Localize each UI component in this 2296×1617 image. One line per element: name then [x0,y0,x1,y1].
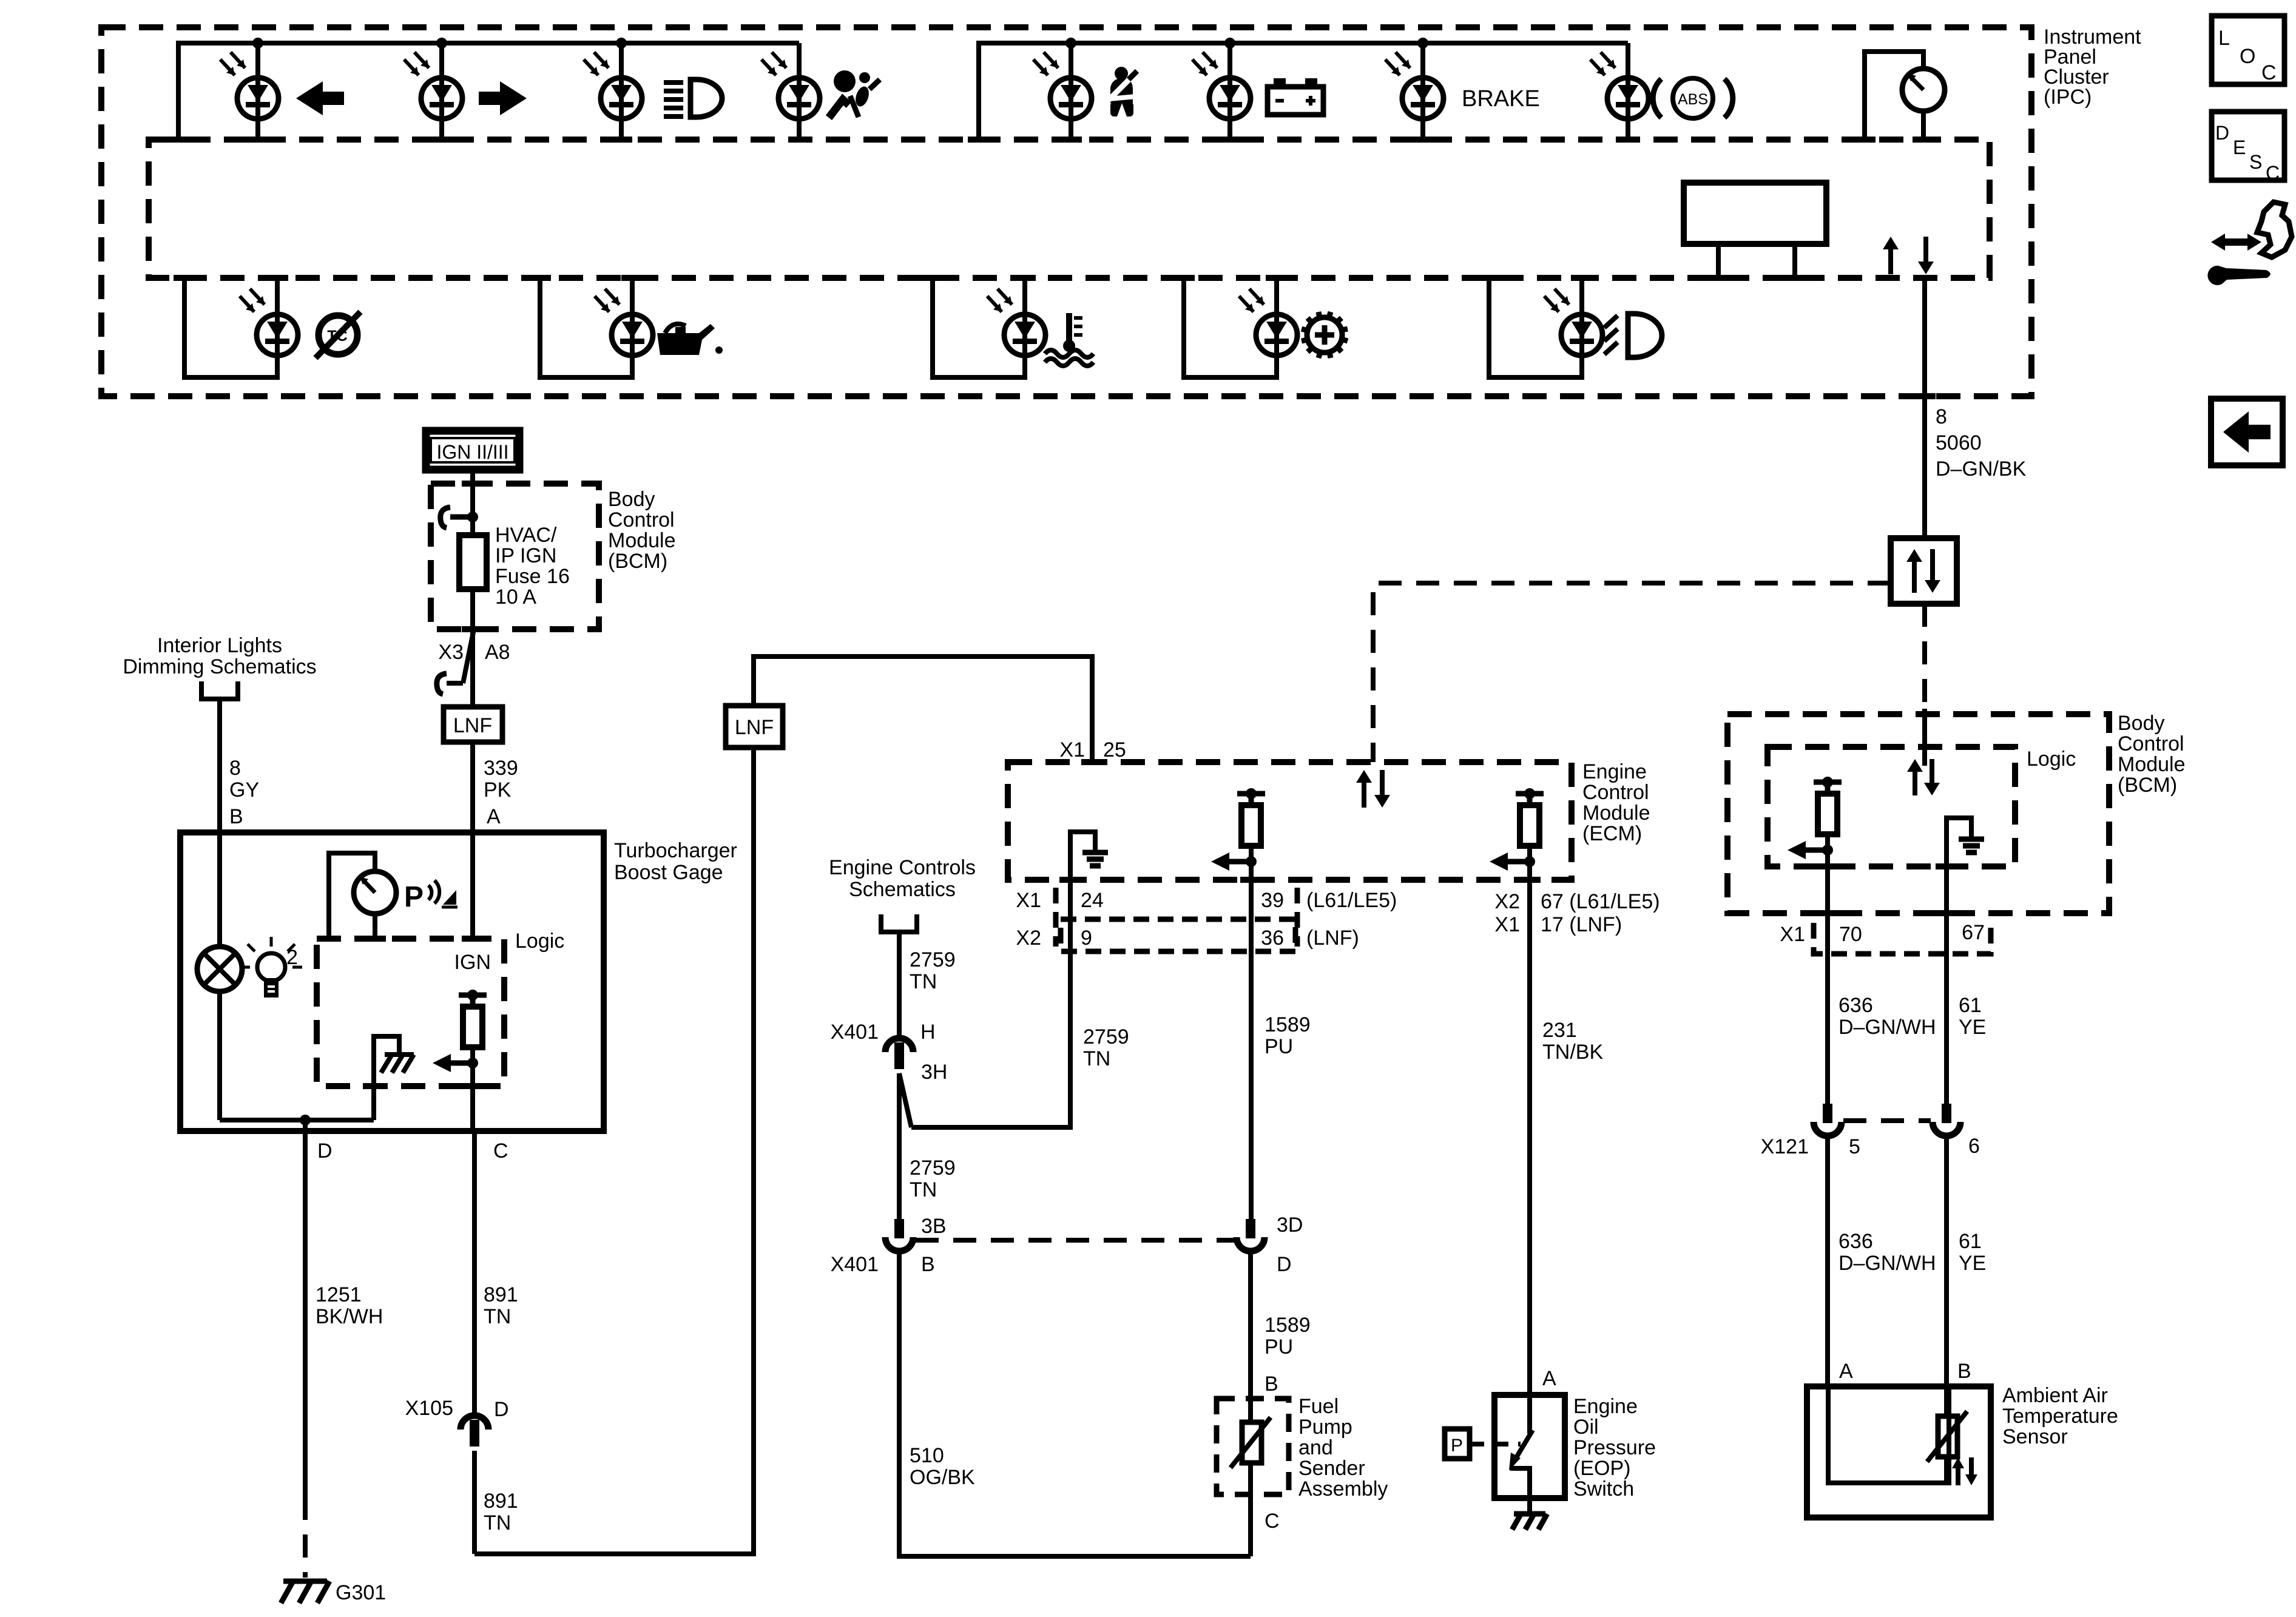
wire - serial data dashed to BCM [1922,604,1927,766]
gauge - boost gauge [318,853,396,939]
svg-text:10 A: 10 A [495,586,536,609]
icon - traction control [316,312,360,358]
ground - BCM signal ground [1936,818,1984,913]
indicator LED - left turn [220,52,279,119]
svg-text:PU: PU [1264,1335,1293,1359]
svg-text:TN: TN [910,1178,937,1201]
svg-text:Schematics: Schematics [849,878,956,901]
node - bus junctions left [252,38,627,49]
svg-text:X121: X121 [1761,1135,1809,1158]
wire - 3H diagonal [899,1073,911,1127]
svg-text:Switch: Switch [1573,1477,1634,1501]
svg-text:C: C [2266,162,2280,184]
IPC display rectangle [1684,183,1826,278]
svg-text:(LNF): (LNF) [1306,927,1359,950]
svg-text:X1: X1 [1780,923,1805,946]
serial data arrows at BCM [1907,759,1940,795]
icon - high beam headlamp [664,79,722,117]
svg-text:2759: 2759 [910,948,956,971]
label - Ambient Air Temperature Sensor [2002,1384,2118,1448]
ground - EOP chassis ground [1512,1514,1547,1530]
ground - G301 [281,1581,386,1604]
label - 636 D-GN/WH upper [1838,994,1936,1039]
svg-text:Boost Gage: Boost Gage [614,861,723,884]
svg-text:636: 636 [1838,994,1873,1017]
Body Control Module (BCM) dashed box right [1727,714,2109,913]
wire - left turn indicator drop [247,43,269,140]
svg-text:67: 67 [1962,921,1985,944]
label - 231 TN/BK / A [1542,1019,1603,1390]
svg-text:PU: PU [1264,1035,1293,1058]
icon - bulb with rays [240,937,302,996]
resistor - BCM ambient sense [1788,777,1842,913]
svg-text:Dimming Schematics: Dimming Schematics [123,655,316,678]
wire - right turn indicator drop [431,43,453,140]
ground - ECM signal ground [1059,832,1108,880]
sensor signal arrows [1952,1457,1977,1485]
svg-text:A8: A8 [485,641,510,664]
wire - 510 OG/BK [899,1252,1251,1556]
wire - 636 D-GN/WH upper [1825,913,1830,1104]
connector LNF (gage return) [726,706,783,748]
Body Control Module (BCM) dashed box left [431,484,599,629]
svg-text:Module: Module [2118,753,2186,776]
svg-text:8: 8 [229,757,241,780]
label - Fuel Pump and Sender Assembly [1298,1395,1388,1501]
svg-text:Engine: Engine [1582,760,1647,783]
svg-text:339: 339 [484,757,518,780]
svg-text:36: 36 [1261,927,1284,950]
label - 891 TN upper [484,1283,518,1328]
svg-text:(ECM): (ECM) [1582,822,1642,845]
Instrument Panel Cluster (IPC) outer dashed box [101,27,2031,396]
svg-text:D: D [494,1398,509,1421]
ECM pin labels 39 / 36 [1261,888,1397,950]
off-page reference - Engine Controls Schematics [829,856,976,901]
pressure symbol P [1445,1429,1521,1459]
Engine Control Module (ECM) dashed box [1008,762,1572,880]
wire - 891 TN lower [472,1451,477,1554]
svg-text:Control: Control [608,508,675,532]
serial data arrows at ECM [1356,770,1390,808]
wire - return to LNF [474,748,754,1554]
icon - right turn arrow [479,81,527,115]
icon - airbag warning [829,70,880,118]
svg-text:D: D [317,1139,333,1163]
wire - IPC feed bus left [167,43,799,140]
svg-text:1251: 1251 [316,1283,362,1306]
wire - oil pressure indicator loop [529,278,643,377]
svg-text:X1: X1 [1494,913,1520,936]
svg-text:636: 636 [1838,1230,1873,1253]
svg-text:TN: TN [1083,1047,1110,1070]
svg-text:2: 2 [286,946,298,969]
svg-text:2759: 2759 [1083,1025,1129,1048]
svg-text:IGN II/III: IGN II/III [436,441,508,463]
label - Turbocharger Boost Gage [614,839,737,884]
svg-text:Oil: Oil [1573,1416,1599,1439]
svg-text:A: A [487,805,501,828]
sender - fuel level variable resistor [1231,1417,1271,1468]
wire - fuel pump to return [1251,1463,1280,1556]
svg-text:(L61/LE5): (L61/LE5) [1306,889,1397,912]
label - Logic (BCM) [2027,748,2076,771]
wire - fuse to X3/A8 [462,589,484,707]
wire - pin B to lamp [217,832,222,947]
svg-text:3B: 3B [921,1215,947,1238]
connector X401 pin B [885,1219,913,1251]
svg-text:YE: YE [1959,1016,1986,1039]
svg-text:Temperature: Temperature [2002,1405,2118,1428]
label - ECM [1582,760,1650,845]
label - 2759 TN (ECM) [1083,1025,1129,1070]
wire - 339 PK [470,742,475,832]
svg-text:(EOP): (EOP) [1573,1457,1630,1480]
connector X401 pin D [1237,1219,1264,1251]
label - X1 25 [1059,738,1126,761]
svg-text:D–GN/BK: D–GN/BK [1936,457,2027,481]
sensor - thermistor [1927,1411,1967,1483]
indicator LED - ABS [1590,52,1649,119]
wire - fog lamp indicator loop [1478,278,1593,377]
wire - 231 TN/BK [1527,880,1532,1395]
svg-text:6: 6 [1968,1135,1980,1158]
svg-text:BRAKE: BRAKE [1462,86,1540,112]
label - BCM left [608,488,676,573]
indicator LED - brake [1385,52,1443,119]
wire - IGN feed into BCM [462,470,484,535]
svg-text:P: P [404,881,424,913]
icon - connector end view reference (wrench) [2207,202,2292,285]
svg-text:(IPC): (IPC) [2044,86,2092,109]
wire - transmission indicator loop [1173,278,1288,377]
DESC reference box [2212,112,2284,184]
wire - 1251 BK/WH [303,1131,308,1578]
connector X121 pin 5 [1814,1104,1842,1136]
LOC reference box [2212,16,2284,84]
svg-text:E: E [2233,137,2246,158]
label - 3D / D [1277,1214,1303,1276]
svg-text:TN: TN [910,970,937,993]
off-page reference - Interior Lights Dimming Schematics [123,634,316,678]
svg-text:2759: 2759 [910,1156,956,1180]
label - X105 / D [405,1397,509,1421]
ECM pin labels X2 67 / X1 17 [1494,890,1660,936]
label - EOP switch [1573,1395,1656,1501]
BCM pin labels X1 70 / 67 [1780,921,1991,954]
svg-text:IP IGN: IP IGN [495,544,556,567]
svg-text:TN/BK: TN/BK [1542,1041,1603,1064]
svg-text:(BCM): (BCM) [608,550,667,573]
serial data arrows in IPC [1883,237,1934,274]
svg-text:X401: X401 [831,1253,879,1276]
svg-text:Fuse 16: Fuse 16 [495,565,570,588]
svg-text:X105: X105 [405,1397,453,1420]
svg-text:X2: X2 [1016,927,1041,950]
ECM pin labels X1 24 / X2 9 [1016,888,1295,951]
svg-text:O: O [2240,45,2255,68]
svg-text:B: B [1957,1360,1971,1383]
switch hook in BCM [441,507,478,528]
svg-text:D: D [1277,1253,1292,1276]
label - 1251 BK/WH [316,1283,383,1328]
svg-text:Sensor: Sensor [2002,1425,2068,1448]
indicator LED - oil pressure [595,289,653,356]
svg-text:D: D [2215,122,2229,144]
icon - ABS [1653,78,1733,118]
indicator LED - high beam [584,52,642,119]
svg-text:GY: GY [229,778,259,802]
svg-text:Control: Control [1582,781,1649,804]
gauge - IPC speedometer [1854,52,1945,140]
svg-text:D–GN/WH: D–GN/WH [1838,1252,1936,1275]
wire - airbag indicator drop [788,43,810,140]
label - circuit 5060 [1936,405,2027,481]
svg-text:B: B [1264,1372,1278,1396]
icon - seat belt [1106,67,1137,116]
connector X105 pin D [461,1416,488,1447]
svg-text:YE: YE [1959,1252,1986,1275]
wire - logic output to pin C [462,1063,484,1131]
icon - fog lamp [1604,314,1662,357]
wire - ABS indicator drop [1617,43,1639,140]
svg-text:LNF: LNF [453,714,492,737]
icon - oil pressure [657,324,723,355]
svg-text:17 (LNF): 17 (LNF) [1541,913,1622,936]
svg-text:Sender: Sender [1298,1457,1365,1480]
svg-text:(BCM): (BCM) [2118,774,2177,797]
resistor - ECM oil pressure sense [1490,788,1544,880]
Fuel Pump and Sender Assembly dashed box [1217,1399,1289,1494]
wire - 636 D-GN/WH lower [1825,1136,1830,1389]
wire - 5060 D-GN/BK serial data [1914,278,1936,538]
indicator LED - traction control [240,289,298,356]
wire - X121 mate dashed [1843,1118,1931,1123]
svg-text:and: and [1298,1436,1333,1459]
icon - battery [1268,78,1323,115]
wire - pin D drop [303,1120,308,1131]
lamp - boost gage illumination [197,947,242,991]
svg-text:25: 25 [1103,738,1126,761]
resistor - ECM fuel level sense [1211,788,1265,880]
label - BCM right [2118,712,2186,797]
svg-text:Logic: Logic [2027,748,2076,771]
svg-text:C: C [493,1139,508,1163]
svg-text:Logic: Logic [515,930,564,953]
svg-text:Pump: Pump [1298,1416,1352,1439]
svg-text:8: 8 [1936,405,1947,428]
svg-text:891: 891 [484,1283,518,1306]
svg-text:H: H [920,1021,936,1044]
switch - EOP contacts [1509,1395,1533,1498]
svg-text:B: B [921,1253,935,1276]
label - 8 GY / B [229,757,259,828]
wire - 1589 PU from ECM [1249,880,1254,1219]
svg-text:Body: Body [608,488,655,511]
wire - internal bottom bus [220,1118,374,1122]
svg-text:C: C [2261,61,2277,84]
svg-text:5: 5 [1849,1135,1860,1158]
label - pin D and C [317,1139,508,1163]
svg-text:61: 61 [1959,1230,1982,1253]
label - 2759 TN (upper) [910,948,956,993]
label - 61 YE upper [1959,994,1986,1039]
svg-text:891: 891 [484,1490,518,1513]
label - X401 / H / 3H [831,1021,948,1084]
svg-text:67 (L61/LE5): 67 (L61/LE5) [1541,890,1660,913]
icon - coolant temperature [1045,313,1093,366]
wire - 1589 PU to fuel pump [1248,1252,1253,1422]
wire - 2759 TN to 3B [897,1073,902,1219]
label - BRAKE [1462,86,1540,112]
indicator LED - right turn [404,52,462,119]
wire - 2759 TN from ECM [911,880,1070,1127]
label - fuse [495,524,570,609]
svg-text:Ambient Air: Ambient Air [2002,1384,2108,1407]
indicator LED - airbag [761,52,820,119]
wire - lamp to bottom bus [217,991,222,1120]
svg-text:Interior Lights: Interior Lights [157,634,282,657]
svg-text:C: C [1264,1510,1280,1533]
connector LNF (ignition feed) [444,707,502,742]
Turbocharger Boost Gage box [180,832,604,1131]
wire - 61 YE lower [1944,1136,1949,1416]
svg-text:X3: X3 [438,641,464,664]
svg-text:L: L [2218,27,2230,50]
label - 510 OG/BK [910,1444,975,1489]
Logic dashed box (boost gage) [317,939,504,1086]
indicator LED - battery [1192,52,1251,119]
svg-text:Module: Module [608,529,676,552]
svg-text:510: 510 [910,1444,944,1467]
svg-text:61: 61 [1959,994,1982,1017]
wire - high beam indicator drop [610,43,632,140]
svg-text:IGN: IGN [454,951,491,974]
svg-text:1589: 1589 [1264,1013,1311,1036]
IPC label [2044,25,2141,109]
label - 339 PK / A [484,757,518,828]
svg-text:Turbocharger: Turbocharger [614,839,737,862]
node - bus junctions right [1065,38,1428,49]
Engine Oil Pressure (EOP) Switch box [1494,1395,1565,1498]
serial data box [1891,538,1957,604]
svg-text:LNF: LNF [735,716,774,739]
label - X121 / 5 / 6 [1761,1135,1980,1158]
svg-text:S: S [2249,151,2262,173]
label - 61 YE lower [1959,1230,1986,1275]
icon - P with pressure waves [404,880,458,913]
label - 636 D-GN/WH lower [1838,1230,1936,1275]
IPC inner dashed box [149,140,1990,278]
power feed IGN II/III [426,431,519,470]
svg-text:TN: TN [484,1511,511,1534]
ground - gage logic chassis ground [363,1036,414,1120]
svg-text:9: 9 [1081,927,1092,950]
svg-text:Engine: Engine [1573,1395,1638,1418]
label - 2759 TN (to 3B) [910,1156,956,1201]
fuse - HVAC/IP IGN Fuse 16 10A [459,535,487,589]
wire - battery indicator drop [1219,43,1241,140]
wire - 891 TN upper [472,1131,477,1416]
svg-text:Engine Controls: Engine Controls [829,856,976,879]
svg-text:X401: X401 [831,1021,879,1044]
svg-text:ABS: ABS [1678,91,1708,108]
wire - coolant temp indicator loop [922,278,1036,377]
svg-text:5060: 5060 [1936,431,1982,454]
svg-text:BK/WH: BK/WH [316,1305,383,1328]
svg-text:Module: Module [1582,802,1650,825]
wire - serial data dashed to ECM [1373,583,1891,762]
svg-text:B: B [229,805,243,828]
wire - pin A into logic [462,832,484,939]
Logic dashed box (BCM) [1768,747,2015,866]
wire - LNF to ECM X1-25 [754,657,1103,762]
svg-text:Body: Body [2118,712,2165,735]
svg-text:A: A [1542,1367,1556,1390]
svg-text:TC: TC [327,328,347,345]
wire - brake indicator drop [1412,43,1434,140]
wire - 2759 TN to X401-H [897,932,902,1038]
indicator LED - seat belt [1033,52,1092,119]
svg-text:3H: 3H [921,1061,947,1084]
svg-text:39: 39 [1261,889,1284,912]
svg-text:G301: G301 [336,1581,386,1604]
connector X401 pin H [885,1038,913,1069]
svg-text:X1: X1 [1016,889,1041,912]
svg-text:D–GN/WH: D–GN/WH [1838,1016,1936,1039]
svg-text:OG/BK: OG/BK [910,1466,975,1489]
node - D junction [300,1115,311,1126]
label - 3B / X401 / B [831,1215,947,1276]
icon - transmission gear [1302,312,1348,358]
connector X3/A8 hook [437,629,474,694]
svg-text:1589: 1589 [1264,1314,1311,1337]
wire - 8 GY [217,699,222,832]
svg-text:231: 231 [1542,1019,1577,1042]
svg-text:3D: 3D [1277,1214,1303,1237]
Ambient Air Temperature Sensor box [1807,1386,1991,1517]
label - Logic / IGN [454,930,565,974]
indicator LED - coolant temp [987,289,1045,356]
indicator LED - fog lamp [1544,289,1602,356]
svg-text:Fuel: Fuel [1298,1395,1339,1418]
svg-text:A: A [1839,1360,1853,1383]
bracket - engine controls [881,914,917,932]
label - 1589 PU / B [1264,1314,1311,1396]
wire - EOP to ground [1527,1498,1532,1513]
label - 891 TN lower [484,1490,518,1534]
svg-text:24: 24 [1081,889,1104,912]
wire - seat belt indicator drop [1060,43,1082,140]
wire - 61 YE upper [1944,913,1949,1104]
indicator LED - transmission [1239,289,1297,356]
connector X121 pin 6 [1933,1104,1960,1136]
svg-text:HVAC/: HVAC/ [495,524,557,547]
wire - traction control indicator loop [174,278,288,377]
back arrow box [2211,399,2283,465]
bracket - interior lights [201,681,238,699]
wire - IPC feed bus right [968,43,1628,140]
svg-text:70: 70 [1839,923,1862,946]
resistor - gage logic pull-up [433,990,487,1072]
icon - left turn arrow [296,81,344,115]
svg-text:PK: PK [484,778,512,802]
svg-text:X1: X1 [1059,738,1085,761]
svg-text:Pressure: Pressure [1573,1436,1656,1459]
svg-text:P: P [1451,1436,1463,1456]
label - pin A / B (sensor) [1839,1360,1971,1383]
svg-text:Control: Control [2118,732,2184,755]
